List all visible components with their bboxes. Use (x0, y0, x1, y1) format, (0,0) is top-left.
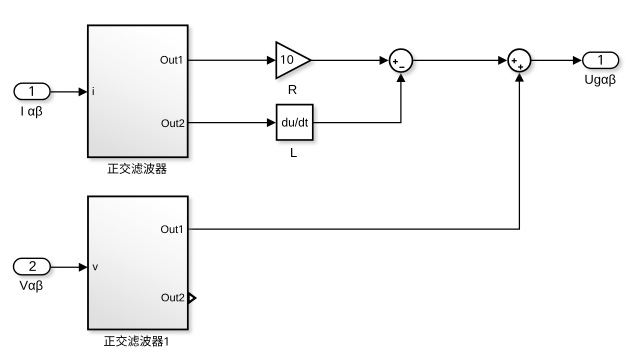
outport Out1 (Ugab) (583, 52, 619, 68)
pin label Out1 (U2) (161, 225, 182, 233)
label Ug alpha-beta (585, 74, 615, 86)
pin label Out2 (U1) (161, 119, 184, 127)
wire sum S1 to sum S2 (413, 56, 507, 65)
wire In2 to subsystem input v (51, 263, 88, 272)
gain R (value 10) (276, 42, 311, 78)
inport In2 (14, 258, 51, 275)
S2 bottom plus sign (518, 65, 523, 70)
S2 left plus sign (512, 58, 517, 63)
sum S2 (+,+) (508, 49, 531, 72)
inport In1 (14, 83, 50, 99)
du/dt text (282, 118, 308, 127)
label R (289, 85, 297, 94)
wire sum S2 to outport (532, 56, 582, 65)
pin label v (93, 264, 98, 270)
subsystem U2 (orthogonal filter 1) (88, 196, 188, 329)
label I alpha-beta (22, 106, 43, 118)
wire In1 to subsystem input i (51, 87, 88, 96)
outport number 1 (598, 55, 601, 65)
gain value 10 (281, 55, 293, 64)
inport In1 number 1 (30, 86, 33, 96)
block name label U2 (CJK) (104, 335, 167, 346)
pin label Out1 (U1) (160, 56, 181, 64)
S1 minus sign (399, 66, 404, 68)
wire gain R to sum S1 (311, 56, 389, 65)
wire U1 Out1 to gain R (188, 56, 276, 65)
label L (291, 148, 297, 157)
subsystem U1 (orthogonal filter) (88, 25, 188, 157)
wire U1 Out2 to derivative L (188, 118, 276, 127)
pin label i (92, 87, 95, 95)
pin label Out2 (U2) (161, 294, 184, 302)
derivative block du/dt (L) (277, 105, 313, 140)
block name label U1 (CJK) (108, 163, 167, 174)
sum S1 (+,-) (390, 49, 413, 72)
unconnected output port marker U2 Out2 (189, 293, 196, 303)
S1 plus sign (393, 59, 398, 64)
wire derivative L to sum S1 bottom (minus input) (314, 73, 406, 123)
label V alpha-beta (19, 280, 42, 292)
wire subsystem U2 Out1 to sum S2 bottom (188, 73, 524, 230)
inport In2 number 2 (29, 261, 35, 271)
